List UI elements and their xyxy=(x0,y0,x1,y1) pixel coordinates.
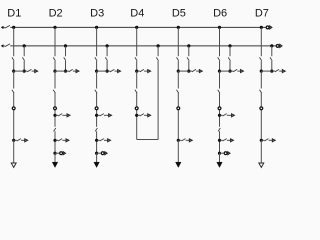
wire D4 column to junction xyxy=(136,61,138,71)
svg-text:D7: D7 xyxy=(255,8,269,20)
terminal circle D7 xyxy=(260,107,263,110)
wire D3 column upper xyxy=(96,27,98,56)
wire D2 column to junction xyxy=(54,61,56,71)
terminal arrow rail 2 right xyxy=(280,44,282,47)
junction dot rail 1 / D2 xyxy=(53,26,56,29)
wire rail 2 left stub xyxy=(3,45,4,47)
switch D7 column xyxy=(260,57,262,60)
wire D2 bottom xyxy=(54,153,56,163)
switch D1 column xyxy=(12,57,14,60)
wire D4 bottom tie xyxy=(137,139,158,141)
tap switch-arrow D5 lower output xyxy=(178,139,189,141)
wire D1 column upper xyxy=(13,27,15,56)
node D2 second tap xyxy=(53,139,56,142)
terminal circle D6 side xyxy=(224,152,227,155)
junction dot D3 pair xyxy=(106,70,109,73)
node D2 junction xyxy=(53,70,56,73)
node D1 lower tap xyxy=(12,139,15,142)
wire D5 column upper xyxy=(177,27,179,56)
wire D1 bottom xyxy=(13,140,15,163)
wire D1 column to junction xyxy=(13,61,15,71)
wire D4 lower xyxy=(136,93,138,140)
wire D7 junction tie xyxy=(261,70,272,72)
switch rail 2 input xyxy=(5,44,10,47)
wire D6 below switch xyxy=(219,131,221,153)
tap switch-arrow D7 junction output xyxy=(272,69,283,71)
switch D5 column xyxy=(177,57,179,60)
wire D3 lower xyxy=(96,93,98,127)
terminal arrow rail 1 right xyxy=(270,26,272,29)
tap switch-arrow D6 second output xyxy=(220,139,231,141)
terminal circle rail 2 right xyxy=(276,44,279,47)
terminal circle rail 1 right xyxy=(266,26,269,29)
tap switch-arrow D3 second output xyxy=(97,139,108,141)
wire D7 mid xyxy=(260,71,262,88)
wire rail 1 left stub xyxy=(3,26,4,28)
terminal circle D1 xyxy=(12,107,15,110)
node D7 lower tap xyxy=(260,139,263,142)
node D5 junction xyxy=(177,70,180,73)
wire D3 terminal stub xyxy=(97,152,101,154)
tap switch-arrow D6 first output xyxy=(220,114,232,116)
tap switch-arrow D7 lower output xyxy=(261,139,272,141)
wire D2 terminal stub xyxy=(55,152,59,154)
switch D3 column xyxy=(95,57,97,60)
svg-text:D5: D5 xyxy=(172,8,186,20)
wire D3 bottom xyxy=(96,153,98,163)
tap switch-arrow D1 lower output xyxy=(14,139,25,141)
wire D6 column to junction xyxy=(219,61,221,71)
wire D5 junction tie xyxy=(178,70,189,72)
wire D7 column upper xyxy=(260,27,262,56)
switch D2 column xyxy=(53,57,55,60)
wire D5 mid xyxy=(177,71,179,88)
switch D2 lower xyxy=(54,128,56,131)
tap switch-arrow D2 first output xyxy=(55,114,67,116)
input arrow rail 1 xyxy=(1,26,4,29)
svg-text:D3: D3 xyxy=(90,8,104,20)
tap switch-arrow D3 first output xyxy=(97,114,109,116)
junction dot rail 2 / D5 xyxy=(187,44,190,47)
node D7 junction xyxy=(260,70,263,73)
wire D3 second line to junction xyxy=(106,61,108,71)
wire D2 mid xyxy=(54,71,56,88)
node D6 junction xyxy=(218,70,221,73)
wire D1 junction tie xyxy=(14,70,25,72)
node D6 second tap xyxy=(218,139,221,142)
terminal circle D4 xyxy=(135,107,138,110)
wire D1 second line to junction xyxy=(23,61,25,71)
svg-text:D4: D4 xyxy=(130,8,144,20)
open arrow D1 bottom xyxy=(11,163,16,167)
ground arrow D2 bottom xyxy=(52,162,57,167)
input arrow rail 2 xyxy=(1,44,4,47)
junction dot rail 1 / D1 xyxy=(12,26,15,29)
wire D7 column to junction xyxy=(260,61,262,71)
node D5 lower tap xyxy=(177,139,180,142)
junction dot rail 1 / D6 xyxy=(218,26,221,29)
ground arrow D6 bottom xyxy=(217,162,222,167)
switch D3 lower xyxy=(95,128,97,131)
tap switch-arrow D1 junction output xyxy=(24,69,35,71)
wire D1 mid xyxy=(13,71,15,88)
tap switch-arrow D4 first output xyxy=(137,114,148,116)
wire D7 second line to junction xyxy=(271,61,273,71)
switch D4 mid xyxy=(135,90,137,93)
junction dot rail 2 / D2 xyxy=(64,44,67,47)
wire D5 second line to junction xyxy=(188,61,190,71)
junction dot rail 1 / D7 xyxy=(260,26,263,29)
junction dot D5 pair xyxy=(187,70,190,73)
wire D6 junction tie xyxy=(220,70,231,72)
wire D6 terminal stub xyxy=(220,152,224,154)
junction dot D2 pair xyxy=(64,70,67,73)
wire D3 mid xyxy=(96,71,98,88)
wire D2 below switch xyxy=(54,131,56,153)
switch D7 second line xyxy=(270,57,272,60)
wire D6 second line upper xyxy=(229,46,231,56)
wire D6 bottom xyxy=(219,153,221,163)
wire D1 second line upper xyxy=(23,46,25,56)
wire D2 column upper xyxy=(54,27,56,56)
junction dot rail 2 / D4 xyxy=(157,44,160,47)
switch D3 mid xyxy=(95,90,97,93)
tap switch-arrow D6 junction output xyxy=(230,69,241,71)
terminal arrow D2 side xyxy=(63,152,65,155)
junction dot rail 1 / D5 xyxy=(177,26,180,29)
wire D6 lower xyxy=(219,93,221,127)
terminal arrow D6 side xyxy=(228,152,230,155)
junction dot D6 pair xyxy=(228,70,231,73)
wire D2 junction tie xyxy=(55,70,66,72)
junction dot rail 2 / D1 xyxy=(23,44,26,47)
svg-text:D6: D6 xyxy=(213,8,227,20)
switch rail 1 input xyxy=(5,25,10,28)
switch D4 second line xyxy=(156,57,158,60)
node D2 terminal tap xyxy=(53,152,56,155)
svg-text:D1: D1 xyxy=(7,8,21,20)
terminal circle D3 xyxy=(95,107,98,110)
wire D3 column to junction xyxy=(96,61,98,71)
tap switch-arrow D3 junction output xyxy=(107,69,118,71)
switch D5 mid xyxy=(177,90,179,93)
tap switch-arrow D5 junction output xyxy=(189,69,200,71)
terminal circle D2 xyxy=(54,107,57,110)
wire D3 second line upper xyxy=(106,46,108,56)
svg-text:D2: D2 xyxy=(49,8,63,20)
terminal circle D2 side xyxy=(60,152,63,155)
wire D2 second line to junction xyxy=(65,61,67,71)
tap switch-arrow D2 second output xyxy=(55,139,66,141)
terminal arrow D3 side xyxy=(105,152,107,155)
wire rail 2 xyxy=(10,45,276,47)
node D2 first tap xyxy=(53,114,56,117)
node D3 junction xyxy=(95,70,98,73)
node D6 terminal tap xyxy=(218,152,221,155)
junction dot rail 2 / D7 xyxy=(270,44,273,47)
wire D4 mid xyxy=(136,71,138,88)
junction dot rail 2 / D6 xyxy=(228,44,231,47)
wire D6 column upper xyxy=(219,27,221,56)
junction dot rail 2 / D3 xyxy=(106,44,109,47)
wire D3 below switch xyxy=(96,131,98,153)
switch D5 second line xyxy=(187,57,189,60)
tap switch-arrow D4 junction output xyxy=(137,69,148,71)
junction dot D1 pair xyxy=(23,70,26,73)
terminal circle D6 xyxy=(218,107,221,110)
tap switch-arrow D2 junction output xyxy=(66,69,77,71)
wire D5 bottom xyxy=(177,140,179,163)
wire D7 lower xyxy=(260,93,262,141)
wire D5 lower xyxy=(177,93,179,141)
wire D6 mid xyxy=(219,71,221,88)
switch D6 mid xyxy=(218,90,220,93)
wire D1 lower xyxy=(13,93,15,141)
switch D3 second line xyxy=(105,57,107,60)
wire rail 1 xyxy=(10,26,265,28)
wire D6 second line to junction xyxy=(229,61,231,71)
wire D4 second line upper xyxy=(157,46,159,56)
wire D3 junction tie xyxy=(97,70,108,72)
wire D5 second line upper xyxy=(188,46,190,56)
node D3 first tap xyxy=(95,114,98,117)
node D6 first tap xyxy=(218,114,221,117)
switch D6 column xyxy=(218,57,220,60)
switch D6 lower xyxy=(218,128,220,131)
switch D2 second line xyxy=(64,57,66,60)
switch D7 mid xyxy=(260,90,262,93)
node D1 junction xyxy=(12,70,15,73)
switch D4 column xyxy=(135,57,137,60)
node D3 terminal tap xyxy=(95,152,98,155)
wire D2 lower xyxy=(54,93,56,127)
wire D4 column upper xyxy=(136,27,138,56)
ground arrow D3 bottom xyxy=(94,162,99,167)
wire D2 second line upper xyxy=(65,46,67,56)
wire D7 bottom xyxy=(260,140,262,163)
terminal circle D5 xyxy=(177,107,180,110)
node D4 first tap xyxy=(135,114,138,117)
wire D4 second line down xyxy=(157,61,159,140)
junction dot rail 1 / D4 xyxy=(135,26,138,29)
junction dot rail 1 / D3 xyxy=(95,26,98,29)
switch D1 second line xyxy=(22,57,24,60)
node D4 junction xyxy=(135,70,138,73)
open arrow D7 bottom xyxy=(259,163,264,167)
junction dot D7 pair xyxy=(270,70,273,73)
switch D2 mid xyxy=(53,90,55,93)
switch D1 mid xyxy=(12,90,14,93)
wire D5 column to junction xyxy=(177,61,179,71)
node D3 second tap xyxy=(95,139,98,142)
wire D7 second line upper xyxy=(271,46,273,56)
switch D6 second line xyxy=(228,57,230,60)
terminal circle D3 side xyxy=(101,152,104,155)
ground arrow D5 bottom xyxy=(176,162,181,167)
